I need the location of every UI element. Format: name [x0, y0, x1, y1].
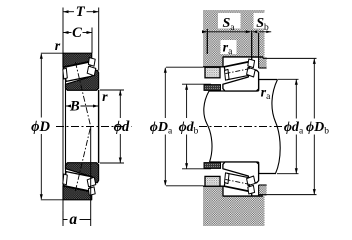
dimension phiDa	[166, 66, 203, 68]
dimension phiDb	[263, 57, 317, 59]
dimension C	[64, 32, 72, 34]
cone (mounted, bottom)	[223, 162, 259, 183]
housing (bottom main block)	[223, 196, 265, 226]
roller (mounted, bottom)	[224, 173, 251, 191]
roller (mounted, top)	[224, 62, 251, 80]
dimension phiD	[41, 52, 63, 54]
label box Sb	[254, 13, 265, 29]
housing (bottom left block)	[203, 186, 223, 226]
housing (top main block)	[223, 10, 265, 57]
svg-text:ϕd: ϕd	[114, 119, 130, 135]
dimension a	[63, 219, 67, 221]
svg-text:C: C	[72, 25, 82, 41]
centerline (left bearing axis)	[56, 126, 132, 128]
wire extension line left x=63	[62, 8, 64, 225]
housing shoulder (top right)	[259, 57, 267, 68]
cage (mounted bottom)	[225, 173, 230, 184]
tapered roller (bottom)	[63, 172, 92, 191]
svg-text:a: a	[69, 211, 77, 228]
shaft break (right end)	[272, 80, 280, 174]
svg-text:r: r	[102, 90, 108, 105]
load centre line (top roller)	[75, 62, 90, 127]
label box ra top	[221, 40, 237, 54]
dimension phida	[278, 78, 299, 80]
label box Sa	[218, 13, 241, 29]
cup (mounted, top)	[223, 57, 252, 67]
centerline (right shaft axis)	[199, 126, 289, 128]
wire extension line a right x=90.7	[90, 127, 92, 227]
dimension B	[66, 105, 70, 107]
cage (bottom, large end)	[88, 187, 95, 196]
outer ring cup (top section)	[63, 53, 92, 67]
tapered roller (top)	[63, 62, 92, 81]
dimension Sa	[208, 31, 250, 33]
dimension phidb	[182, 83, 211, 85]
housing bore shoulder line (top left)	[203, 66, 223, 68]
housing bore line (bottom)	[223, 195, 263, 197]
shaft break (left end)	[204, 91, 212, 162]
inner ring cone (bottom section)	[66, 163, 99, 183]
dimension phid	[100, 89, 124, 91]
svg-text:r: r	[55, 39, 61, 54]
shaft shoulder (right)	[259, 79, 278, 81]
wire extension line C right x=92	[91, 28, 93, 54]
svg-text:T: T	[76, 4, 86, 20]
shaft seat surface (top)	[209, 90, 259, 92]
cage (top, small end)	[63, 68, 68, 79]
inner ring cone (top section)	[66, 70, 99, 90]
dimension Sb	[252, 30, 257, 33]
outer ring cup (bottom section)	[63, 186, 92, 200]
svg-text:ϕD: ϕD	[31, 119, 50, 135]
wire extension line T right x=98.7	[98, 8, 100, 71]
shaft seat surface (bottom)	[210, 161, 259, 163]
cage (mounted top)	[225, 69, 230, 80]
housing (top left block)	[203, 10, 223, 67]
end cover (top)	[205, 67, 220, 78]
end cover (bottom)	[205, 176, 220, 186]
cone (mounted, top)	[223, 70, 259, 91]
housing shoulder (bottom right)	[259, 185, 267, 196]
bore rectangle (left figure)	[65, 76, 67, 177]
dimension T	[64, 11, 75, 13]
cage (bottom, small end)	[63, 174, 68, 185]
cage (top, large end)	[88, 58, 95, 67]
housing bore shoulder line (bottom left)	[203, 185, 223, 187]
load centre line (bottom roller)	[75, 127, 90, 192]
housing bore line (top)	[223, 56, 263, 58]
roller axis (mounted top)	[226, 69, 250, 74]
roller axis (mounted bottom)	[226, 179, 250, 184]
svg-text:B: B	[69, 98, 80, 114]
spacer ring (top)	[204, 85, 221, 91]
spacer ring (bottom)	[204, 163, 221, 169]
cup (mounted, bottom)	[223, 186, 252, 196]
